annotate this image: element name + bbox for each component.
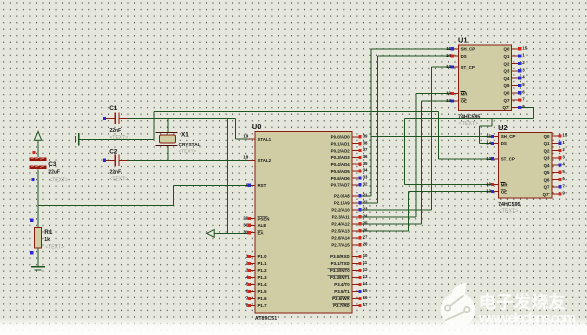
- pin 10 MR of U2: [492, 184, 499, 186]
- svg-text:26: 26: [363, 227, 368, 232]
- IC U1 body: [458, 45, 511, 111]
- pin 1 Q1 of U2: [552, 142, 559, 144]
- svg-text:17: 17: [363, 302, 368, 307]
- pin 24 P2.3/A11 of U0: [352, 216, 359, 218]
- svg-text:U1: U1: [458, 35, 467, 44]
- node: R1 top pin state: [30, 219, 33, 222]
- pin 8 P1.7 of U0: [249, 304, 256, 306]
- svg-text:P1.3: P1.3: [258, 275, 268, 280]
- svg-text:Q7': Q7': [502, 105, 509, 110]
- pin 6 Q6 of U2: [552, 179, 559, 181]
- capacitor C1: [106, 117, 129, 119]
- pin 6 P1.5 of U0: [249, 290, 256, 292]
- pin 13 OE of U2: [492, 191, 499, 193]
- pin 18 XTAL2 of U0: [249, 159, 256, 161]
- svg-text:ST_CP: ST_CP: [461, 65, 475, 70]
- svg-text:P3.0/RXD: P3.0/RXD: [330, 254, 350, 259]
- node: C3 top pin state: [32, 151, 35, 154]
- svg-text:23: 23: [363, 206, 368, 211]
- svg-text:18: 18: [243, 155, 248, 160]
- svg-text:P2.0/A8: P2.0/A8: [334, 194, 350, 199]
- pin 9 RST of U0: [249, 184, 256, 186]
- pin 36 P0.3/AD3 of U0: [352, 156, 359, 158]
- svg-text:Q1: Q1: [544, 141, 550, 146]
- pin 14 DS of U1: [452, 55, 459, 57]
- svg-text:15: 15: [562, 133, 567, 138]
- wire crystal bottom lead: [167, 145, 169, 160]
- wire into XTAL1 pin: [235, 138, 249, 140]
- svg-text:EA: EA: [258, 231, 265, 236]
- watermark: elecfans logo circle: [441, 283, 476, 328]
- node: C2 left pin state: [103, 159, 106, 162]
- pin 15 P3.5/T1 of U0: [352, 290, 359, 292]
- svg-text:OE: OE: [501, 189, 507, 194]
- svg-text:RST: RST: [258, 183, 267, 188]
- svg-text:35: 35: [363, 161, 368, 166]
- node: R1 bottom pin state: [30, 251, 33, 254]
- input terminal (bar) left of crystal net: [75, 136, 77, 143]
- pin 2 P1.1 of U0: [249, 262, 256, 264]
- pin 2 Q2 of U1: [512, 62, 519, 64]
- wire C3 to R1 lead: [37, 170, 39, 228]
- svg-text:P3.5/T1: P3.5/T1: [334, 289, 350, 294]
- pin 4 Q4 of U2: [552, 164, 559, 166]
- wire RST riser: [172, 185, 174, 205]
- pin 17 P3.7/RD of U0: [352, 304, 359, 306]
- svg-text:P2.3/A11: P2.3/A11: [332, 215, 351, 220]
- svg-text:P3.4/T0: P3.4/T0: [334, 282, 350, 287]
- pin 16 P3.6/WR of U0: [352, 297, 359, 299]
- svg-text:22nF: 22nF: [110, 170, 122, 176]
- svg-text:37: 37: [363, 147, 368, 152]
- pin 26 P2.5/A13 of U0: [352, 230, 359, 232]
- pin 14 P3.4/T0 of U0: [352, 283, 359, 285]
- svg-text:PSEN: PSEN: [258, 216, 270, 221]
- svg-text:C2: C2: [109, 148, 118, 155]
- pin 9 Q7' of U2: [552, 193, 559, 195]
- pin 38 P0.1/AD1 of U0: [352, 143, 359, 145]
- svg-text:14: 14: [363, 281, 368, 286]
- svg-text:<TEXT>: <TEXT>: [49, 177, 68, 183]
- pin 30 ALE of U0: [249, 224, 256, 226]
- svg-text:P1.2: P1.2: [258, 268, 268, 273]
- svg-text:C1: C1: [109, 105, 118, 112]
- wire to U2 ST_CP: [439, 158, 492, 160]
- pin 4 P1.3 of U0: [249, 276, 256, 278]
- svg-text:P0.6/AD6: P0.6/AD6: [331, 176, 351, 181]
- svg-text:34: 34: [363, 168, 368, 173]
- pin 29 PSEN of U0: [249, 218, 256, 220]
- pin 5 Q5 of U1: [512, 84, 519, 86]
- svg-text:Q0: Q0: [504, 47, 510, 52]
- pin 11 SH_CP of U2: [492, 135, 499, 137]
- svg-text:10: 10: [363, 253, 368, 258]
- svg-text:MR: MR: [461, 91, 469, 96]
- pin 32 P0.7/AD7 of U0: [352, 184, 359, 186]
- svg-text:21: 21: [363, 192, 368, 197]
- pin 3 Q3 of U1: [512, 70, 519, 72]
- svg-text:32: 32: [363, 181, 368, 186]
- VCC power terminal arrow: [34, 131, 41, 140]
- svg-text:P2.1/A9: P2.1/A9: [334, 201, 350, 206]
- svg-text:ST_CP: ST_CP: [501, 157, 515, 162]
- pin 3 Q3 of U2: [552, 157, 559, 159]
- pin 35 P0.4/AD4 of U0: [352, 163, 359, 165]
- ground symbol: [31, 266, 45, 268]
- svg-text:OE: OE: [461, 99, 467, 104]
- svg-text:Q1: Q1: [504, 54, 510, 59]
- wire net P2.4 to U1 OE: [358, 101, 451, 224]
- svg-text:P1.4: P1.4: [258, 282, 268, 287]
- svg-text:SH_CP: SH_CP: [501, 134, 516, 139]
- pin 7 Q7 of U1: [512, 99, 519, 101]
- watermark: bottom white fade band: [0, 318, 587, 335]
- svg-text:Q3: Q3: [504, 69, 510, 74]
- wire riser x=154: [153, 111, 155, 139]
- wire net P2.3 to U1 MR: [358, 94, 451, 217]
- pin 1 Q1 of U1: [512, 55, 519, 57]
- pin 12 ST_CP of U2: [492, 158, 499, 160]
- svg-text:P0.4/AD4: P0.4/AD4: [331, 162, 351, 167]
- wire C1 row to XTAL1 corner: [129, 117, 236, 119]
- svg-text:<TEXT>: <TEXT>: [499, 209, 519, 215]
- svg-text:1k: 1k: [44, 237, 50, 243]
- svg-text:22uF: 22uF: [48, 170, 60, 176]
- svg-text:Q4: Q4: [504, 76, 510, 81]
- svg-text:P1.5: P1.5: [258, 289, 268, 294]
- pin 5 Q5 of U2: [552, 171, 559, 173]
- svg-text:Q3: Q3: [544, 156, 550, 161]
- wire EA row wire: [214, 232, 249, 234]
- watermark: Chinese text 电子发烧友 (as paths): [480, 293, 565, 310]
- EA terminal arrow: [207, 230, 215, 238]
- pin 28 P2.7/A15 of U0: [352, 244, 359, 246]
- svg-text:P1.6: P1.6: [258, 296, 268, 301]
- svg-text:P2.2/A10: P2.2/A10: [331, 208, 350, 213]
- wire long top rail y=111: [154, 110, 439, 112]
- pin 7 P1.6 of U0: [249, 297, 256, 299]
- wire drop x=438.5 to U2 ST_CP row: [438, 111, 440, 159]
- svg-text:Q2: Q2: [504, 61, 510, 66]
- svg-text:Q6: Q6: [544, 177, 550, 182]
- svg-text:Q4: Q4: [544, 163, 550, 168]
- svg-text:P2.5/A13: P2.5/A13: [331, 229, 350, 234]
- svg-text:38: 38: [363, 140, 368, 145]
- wire terminal to crystal-net riser: [79, 138, 154, 140]
- svg-text:22: 22: [363, 199, 368, 204]
- svg-text:27: 27: [363, 234, 368, 239]
- svg-text:P3.3/INT1: P3.3/INT1: [330, 275, 350, 280]
- svg-text:Q5: Q5: [504, 83, 510, 88]
- capacitor C3 (electrolytic): [30, 158, 47, 161]
- pin 39 P0.0/AD0 of U0: [352, 136, 359, 138]
- svg-text:74HC595: 74HC595: [498, 202, 520, 208]
- wire branch to U2 SH_CP: [371, 135, 492, 137]
- svg-text:19: 19: [243, 134, 248, 139]
- svg-text:39: 39: [363, 133, 368, 138]
- wire net P2.0 to U1 SH_CP: [358, 49, 451, 196]
- pin 10 P3.0/RXD of U0: [352, 255, 359, 257]
- svg-text:<TEXT>: <TEXT>: [179, 149, 197, 155]
- pin 34 P0.5/AD5 of U0: [352, 170, 359, 172]
- svg-text:P0.5/AD5: P0.5/AD5: [331, 169, 351, 174]
- svg-text:Q7: Q7: [544, 185, 550, 190]
- svg-text:P1.1: P1.1: [258, 261, 268, 266]
- svg-text:13: 13: [363, 274, 368, 279]
- svg-text:P3.6/WR: P3.6/WR: [332, 296, 350, 301]
- pin 25 P2.4/A12 of U0: [352, 223, 359, 225]
- pin 6 Q6 of U1: [512, 92, 519, 94]
- svg-text:P3.7/RD: P3.7/RD: [333, 303, 350, 308]
- svg-text:33: 33: [363, 175, 368, 180]
- svg-text:U2: U2: [498, 123, 507, 132]
- svg-text:P2.4/A12: P2.4/A12: [331, 222, 350, 227]
- svg-text:36: 36: [363, 154, 368, 159]
- svg-text:MR: MR: [501, 182, 509, 187]
- svg-text:11: 11: [363, 260, 368, 265]
- wire VCC arrow stem: [37, 140, 39, 157]
- svg-text:P0.3/AD3: P0.3/AD3: [331, 155, 351, 160]
- wire cascade into U2 DS: [480, 118, 499, 143]
- svg-text:www.elecfans.com: www.elecfans.com: [478, 311, 576, 327]
- svg-text:<TEXT>: <TEXT>: [45, 244, 64, 250]
- svg-text:<TEXT>: <TEXT>: [459, 121, 479, 127]
- svg-text:<TEXT>: <TEXT>: [110, 135, 129, 141]
- pin 2 Q2 of U2: [552, 150, 559, 152]
- svg-text:25: 25: [363, 220, 368, 225]
- svg-text:24: 24: [363, 213, 368, 218]
- wire C2 row to XTAL2 pin: [129, 159, 249, 161]
- svg-text:Q7': Q7': [543, 192, 550, 197]
- svg-text:P1.0: P1.0: [258, 254, 268, 259]
- crystal X1: [160, 135, 176, 143]
- svg-text:Q7: Q7: [504, 98, 510, 103]
- svg-text:R1: R1: [44, 229, 53, 236]
- pin 12 ST_CP of U1: [452, 66, 459, 68]
- wire net P2.1 to U1 DS: [358, 56, 451, 203]
- pin 27 P2.6/A14 of U0: [352, 237, 359, 239]
- svg-text:28: 28: [363, 241, 368, 246]
- svg-text:P3.2/INT0: P3.2/INT0: [330, 268, 350, 273]
- svg-text:Q6: Q6: [504, 91, 510, 96]
- pin 31 EA of U0: [249, 232, 256, 234]
- svg-text:XTAL2: XTAL2: [258, 158, 272, 163]
- svg-text:P1.7: P1.7: [258, 303, 268, 308]
- svg-text:DS: DS: [461, 54, 467, 59]
- pin 19 XTAL1 of U0: [249, 138, 256, 140]
- wire RST horizontal run: [38, 204, 173, 206]
- svg-text:16: 16: [363, 295, 368, 300]
- wire net P2.5 to U2 OE: [358, 192, 492, 231]
- svg-text:15: 15: [363, 288, 368, 293]
- svg-text:P0.1/AD1: P0.1/AD1: [331, 142, 351, 147]
- wire R1 to ground lead: [37, 248, 39, 267]
- pin 9 Q7' of U1: [512, 106, 519, 108]
- svg-text:Q5: Q5: [544, 170, 550, 175]
- pin 4 Q4 of U1: [512, 77, 519, 79]
- svg-text:15: 15: [522, 45, 527, 50]
- pin 23 P2.2/A10 of U0: [352, 209, 359, 211]
- pin 33 P0.6/AD6 of U0: [352, 177, 359, 179]
- svg-text:22nF: 22nF: [110, 128, 122, 134]
- svg-text:Q2: Q2: [544, 148, 550, 153]
- wire run to U2 MR: [404, 118, 492, 184]
- resistor R1: [35, 228, 42, 248]
- svg-text:C3: C3: [48, 161, 57, 168]
- pin 11 SH_CP of U1: [452, 48, 459, 50]
- pin 22 P2.1/A9 of U0: [352, 202, 359, 204]
- svg-text:CRYSTAL: CRYSTAL: [179, 142, 201, 148]
- pin 1 P1.0 of U0: [249, 255, 256, 257]
- svg-text:ALE: ALE: [258, 223, 267, 228]
- capacitor C2: [106, 159, 129, 161]
- wire corner down to XTAL1: [234, 118, 236, 139]
- pin 14 DS of U2: [492, 142, 499, 144]
- node: C1 left pin state: [103, 117, 106, 120]
- svg-text:P0.0/AD0: P0.0/AD0: [331, 135, 351, 140]
- pin 3 P1.2 of U0: [249, 269, 256, 271]
- svg-text:P2.6/A14: P2.6/A14: [331, 236, 350, 241]
- wire net P2.2 to U1 ST_CP: [358, 67, 451, 210]
- node: C3 bottom pin state: [31, 178, 34, 181]
- IC U0 body: [255, 132, 352, 314]
- pin 13 P3.3/INT1 of U0: [352, 276, 359, 278]
- pin 12 P3.2/INT0 of U0: [352, 269, 359, 271]
- IC U2 body: [498, 132, 551, 198]
- svg-text:12: 12: [363, 267, 368, 272]
- wire riser to EA row: [227, 118, 229, 233]
- wire cascade from U1 Q7-prime: [404, 107, 533, 118]
- svg-text:P0.2/AD2: P0.2/AD2: [331, 148, 351, 153]
- pin 10 MR of U1: [452, 93, 459, 95]
- pin 13 OE of U1: [452, 100, 459, 102]
- svg-text:P0.7/AD7: P0.7/AD7: [331, 183, 351, 188]
- pin 21 P2.0/A8 of U0: [352, 195, 359, 197]
- svg-text:74HC595: 74HC595: [458, 115, 480, 121]
- svg-text:P2.7/A15: P2.7/A15: [331, 243, 350, 248]
- wire crystal top lead: [167, 118, 169, 132]
- svg-text:<TEXT>: <TEXT>: [110, 177, 129, 183]
- pin 11 P3.1/TXD of U0: [352, 262, 359, 264]
- pin 15 Q0 of U1: [512, 48, 519, 50]
- wire into RST pin: [173, 184, 248, 186]
- svg-text:U0: U0: [252, 122, 261, 131]
- pin 7 Q7 of U2: [552, 186, 559, 188]
- pin 15 Q0 of U2: [552, 135, 559, 137]
- svg-text:P3.1/TXD: P3.1/TXD: [331, 261, 350, 266]
- pin 5 P1.4 of U0: [249, 283, 256, 285]
- svg-text:SH_CP: SH_CP: [461, 47, 476, 52]
- svg-text:X1: X1: [181, 132, 189, 139]
- pin 37 P0.2/AD2 of U0: [352, 150, 359, 152]
- svg-text:XTAL1: XTAL1: [258, 137, 272, 142]
- svg-text:DS: DS: [501, 141, 507, 146]
- svg-text:Q0: Q0: [544, 134, 550, 139]
